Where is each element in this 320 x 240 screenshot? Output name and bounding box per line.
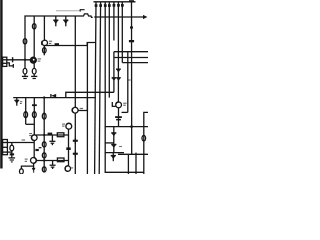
label marks <box>29 133 32 135</box>
rail y57.5 <box>114 57 148 59</box>
ground <box>9 157 16 159</box>
wire Q7 loop <box>78 98 87 111</box>
ground <box>31 75 37 77</box>
transistor Q7 <box>72 107 78 113</box>
wire y112.4 short <box>122 111 128 113</box>
resistor R2 <box>57 158 64 162</box>
transistor Q4 <box>66 123 72 129</box>
label marks <box>62 123 65 125</box>
wire x25.7 <box>25 98 27 125</box>
rail y51.7 <box>114 51 148 53</box>
rail y92.3 <box>66 92 114 97</box>
transistor Q6 <box>65 166 70 171</box>
wire x34.2 <box>33 16 35 58</box>
rail y126.6 <box>105 126 148 128</box>
capacitor C3 <box>43 45 45 55</box>
label marks <box>49 40 52 42</box>
diode on bus F <box>112 78 117 82</box>
faint print line <box>56 10 81 12</box>
wire x87.2 down <box>86 43 88 175</box>
capacitor C13 <box>142 135 146 141</box>
junction node <box>24 59 26 61</box>
wire Q3 emitter down <box>33 141 35 158</box>
connector J1 <box>3 57 7 66</box>
wire Q4 down <box>68 129 70 166</box>
capacitor C11 <box>42 167 46 172</box>
zener D4 <box>14 98 22 106</box>
tick on faint line <box>80 10 84 12</box>
emitter wire + branch <box>33 163 35 168</box>
diode D5 <box>111 153 116 162</box>
transistor Q3 <box>32 135 38 141</box>
wire lower L <box>7 63 14 66</box>
transistor Q5 <box>31 158 37 164</box>
capacitor C14 <box>20 169 24 174</box>
junction node <box>43 96 45 98</box>
long wire x131.5 <box>131 1 133 154</box>
diode on x75.3 lower <box>73 151 78 158</box>
diode on x75.3 upper <box>73 138 78 145</box>
capacitor tick <box>12 57 14 62</box>
wire y160.5 from Q5 <box>36 160 68 162</box>
rail y97.6 <box>13 97 96 99</box>
wire x11.8 <box>11 143 13 146</box>
connector J2 <box>3 140 8 155</box>
small tick <box>35 149 38 151</box>
transistor Q8 <box>116 102 122 108</box>
junction dot <box>130 26 133 29</box>
arrowhead <box>143 15 147 19</box>
label marks <box>22 139 26 141</box>
wire branch y45.5 <box>45 43 96 46</box>
wire jog <box>26 123 35 125</box>
line L2 y154.3 <box>118 153 148 155</box>
wire x44.4 from rail <box>43 16 45 40</box>
bus line G <box>117 2 119 102</box>
ground <box>22 75 28 77</box>
wire x25 down <box>24 60 26 69</box>
diode chain x113.8 <box>113 127 115 153</box>
wire y135 <box>35 134 68 136</box>
capacitor plates <box>115 116 122 118</box>
junction dot <box>130 125 133 128</box>
bus line E <box>108 2 110 98</box>
diode D2 <box>63 16 68 26</box>
junction node <box>43 159 45 161</box>
wire pin1 <box>7 142 34 144</box>
top rail A <box>25 14 93 60</box>
label marks <box>38 58 42 60</box>
plate mark on x131.5 <box>129 40 134 42</box>
capacitor C2 <box>23 39 27 44</box>
gray tick <box>119 146 122 148</box>
diode D1 <box>53 16 58 26</box>
label marks <box>80 107 83 109</box>
bus line C <box>99 2 100 174</box>
bus line D <box>105 2 144 173</box>
wire x136 <box>135 153 137 174</box>
diode on bus G lower <box>116 78 121 82</box>
cap to ground <box>50 161 56 170</box>
left edge heavy bar <box>0 0 2 169</box>
base L wire <box>112 102 115 106</box>
capacitor C5 <box>32 68 36 74</box>
resistor R1 <box>57 133 64 137</box>
polarity bars <box>10 153 14 155</box>
diode on bus G upper <box>116 69 121 73</box>
capacitor C7 <box>32 112 36 118</box>
wire Q1 down <box>33 63 35 68</box>
polarity mark <box>39 147 42 149</box>
capacitor C10 <box>42 153 46 158</box>
capacitor C9 <box>42 142 46 147</box>
wire y59.8 <box>7 59 31 61</box>
capacitor plate <box>32 104 37 106</box>
wire Q8 down <box>118 108 120 127</box>
link y142.9 <box>105 142 114 144</box>
label marks <box>123 102 126 104</box>
bus line H <box>121 2 123 63</box>
capacitor C1 <box>32 24 36 29</box>
right vertical x143.8 <box>144 112 148 174</box>
capacitor C8 <box>42 113 46 119</box>
transistor Q2 <box>42 40 47 45</box>
bus line F <box>113 2 115 41</box>
wire x44.2 chain <box>43 98 45 173</box>
wire pin2 <box>7 151 11 153</box>
capacitor C4 <box>23 68 27 74</box>
top bus rail <box>94 1 136 3</box>
transistor Q1 <box>30 57 36 63</box>
label marks <box>25 158 28 160</box>
capacitor C6 <box>24 112 28 118</box>
diode blob on branch <box>55 43 59 45</box>
capacitor plate <box>48 133 53 135</box>
bus line B <box>95 2 96 174</box>
wire x128.4 <box>127 154 129 174</box>
line L1 y152.6 <box>105 152 124 154</box>
rail y62.6 <box>122 62 148 64</box>
T bar on x131.5 <box>129 0 134 2</box>
capacitor C12 <box>10 145 14 151</box>
junction blob <box>66 147 70 150</box>
long wire x75.3 <box>74 16 76 107</box>
wire x34.3 <box>33 98 35 135</box>
cap to ground mid <box>49 135 55 145</box>
diode D3 on rail <box>51 94 56 98</box>
gray label <box>128 79 130 81</box>
junction node <box>43 134 45 136</box>
cap marks under top rail <box>95 4 98 7</box>
wire x127.8 <box>127 52 129 113</box>
arrow rail B <box>94 16 143 18</box>
